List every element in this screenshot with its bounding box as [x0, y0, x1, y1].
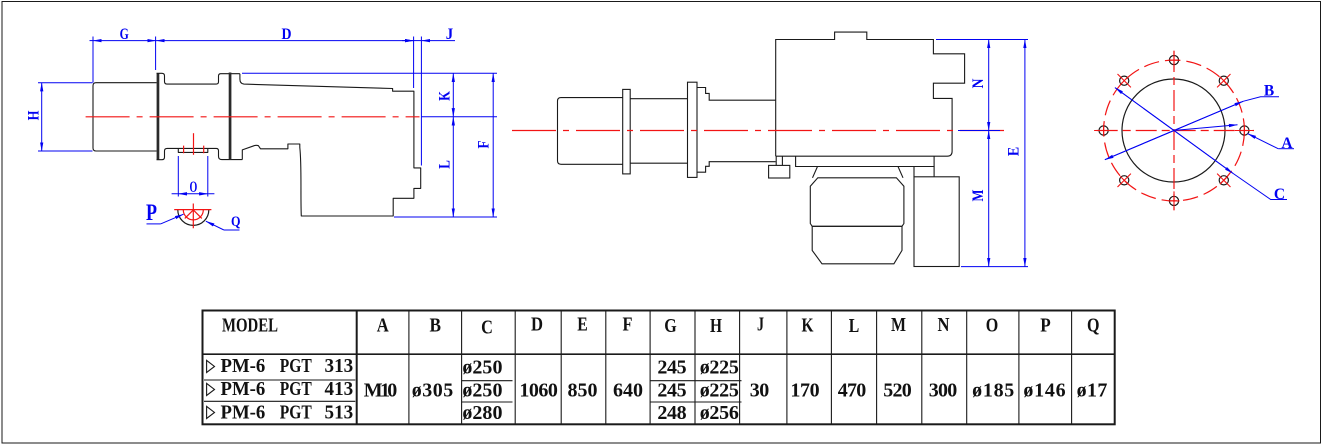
label P with leader — [146, 200, 184, 225]
flange collar bottom — [157, 148, 243, 159]
dimension E — [1006, 40, 1025, 267]
G column rows — [657, 356, 686, 424]
svg-text:640: 640 — [613, 379, 643, 401]
blast tube (left cylinder) — [93, 83, 157, 151]
label B diameter line with leader — [1105, 82, 1279, 159]
svg-text:H: H — [710, 315, 722, 337]
svg-text:ø250: ø250 — [462, 356, 502, 378]
mounting plate — [796, 156, 935, 166]
solenoid stem — [776, 156, 782, 165]
svg-text:C: C — [481, 317, 493, 339]
solenoid box — [769, 165, 790, 178]
fan housing box with top lug and side notch — [776, 32, 965, 156]
svg-text:E: E — [577, 314, 588, 336]
flange 1 — [623, 89, 631, 173]
svg-text:248: 248 — [657, 402, 686, 424]
svg-text:A: A — [1281, 135, 1293, 152]
svg-text:520: 520 — [883, 379, 912, 401]
hole axis centerline (red vertical) — [193, 133, 195, 155]
svg-text:PGT: PGT — [280, 355, 313, 377]
dimension J — [402, 26, 455, 166]
svg-text:J: J — [446, 26, 454, 43]
svg-text:1060: 1060 — [519, 379, 558, 401]
svg-text:D: D — [282, 26, 292, 43]
flange 2 — [688, 82, 698, 177]
data values merged cells — [364, 379, 1108, 401]
svg-text:D: D — [531, 314, 543, 336]
dimension D — [156, 26, 414, 43]
svg-text:ø146: ø146 — [1023, 379, 1065, 401]
label C diameter line with leader — [1115, 88, 1287, 203]
svg-text:PM-6: PM-6 — [221, 355, 266, 377]
svg-text:P: P — [1040, 315, 1051, 337]
svg-text:G: G — [120, 26, 129, 43]
svg-text:N: N — [938, 314, 950, 336]
svg-text:300: 300 — [929, 379, 958, 401]
svg-text:B: B — [1264, 82, 1274, 99]
svg-text:N: N — [970, 79, 987, 89]
svg-text:O: O — [190, 179, 198, 196]
svg-text:30: 30 — [750, 379, 770, 401]
second flange thick face — [229, 73, 232, 160]
motor neck — [813, 167, 904, 178]
svg-text:170: 170 — [790, 379, 819, 401]
transformer box — [914, 177, 959, 267]
svg-text:L: L — [437, 160, 454, 169]
svg-text:P: P — [146, 200, 157, 225]
svg-text:G: G — [664, 315, 677, 337]
svg-text:K: K — [437, 91, 454, 101]
svg-text:M: M — [891, 314, 906, 336]
label Q with leader — [206, 214, 241, 230]
svg-text:B: B — [430, 315, 442, 337]
bolt hole 315deg — [1217, 174, 1230, 187]
table header separator — [203, 353, 1115, 355]
detail red bolt-circle arc — [183, 210, 203, 220]
svg-text:850: 850 — [567, 379, 597, 401]
dimension N — [970, 40, 989, 131]
H column rows — [700, 356, 739, 424]
svg-text:F: F — [475, 140, 492, 148]
model row 2 — [207, 378, 354, 400]
main housing outline — [240, 74, 421, 216]
bolt hole 135deg — [1118, 74, 1131, 87]
svg-text:ø250: ø250 — [462, 379, 502, 401]
crosshair horizontal (red) — [1097, 130, 1254, 132]
table column line MODEL — [356, 311, 358, 425]
svg-text:ø225: ø225 — [700, 356, 739, 378]
C column rows — [462, 356, 502, 424]
bolt hole 225deg — [1118, 174, 1131, 187]
bolt hole 270deg — [1169, 191, 1180, 210]
inner bore circle (black) — [1122, 79, 1225, 182]
row separators C column — [462, 381, 513, 402]
bolt hole 90deg — [1169, 51, 1180, 70]
motor lower body — [812, 226, 902, 263]
svg-text:F: F — [623, 314, 633, 336]
bolt hole 45deg — [1217, 74, 1230, 87]
svg-text:PM-6: PM-6 — [221, 378, 266, 400]
svg-text:M10: M10 — [364, 379, 397, 401]
label A hole callout — [1176, 125, 1294, 152]
svg-text:513: 513 — [325, 401, 354, 423]
svg-text:K: K — [802, 315, 814, 337]
bolt hole 180deg — [1094, 125, 1113, 136]
bolt circle (red dashed) — [1104, 60, 1245, 201]
svg-text:C: C — [1274, 186, 1285, 203]
svg-text:Q: Q — [1087, 315, 1100, 337]
boss notch under body — [178, 148, 208, 152]
table outer border — [203, 311, 1115, 425]
mounting flange disc (thick bar) — [157, 73, 160, 160]
dimension H — [26, 83, 93, 151]
svg-text:A: A — [377, 315, 389, 337]
svg-text:ø305: ø305 — [412, 379, 454, 401]
svg-text:ø17: ø17 — [1077, 379, 1108, 401]
svg-text:413: 413 — [325, 378, 354, 400]
flange collar top — [157, 73, 240, 84]
extension lines K/L/F — [242, 73, 497, 217]
svg-text:J: J — [757, 314, 764, 336]
svg-text:ø185: ø185 — [972, 379, 1014, 401]
svg-text:ø256: ø256 — [700, 402, 739, 424]
model row 1 — [207, 355, 354, 377]
svg-text:470: 470 — [838, 379, 867, 401]
dimension L — [437, 117, 454, 217]
svg-text:H: H — [26, 111, 43, 121]
svg-text:PGT: PGT — [280, 401, 313, 423]
detail red 45deg rays — [185, 210, 202, 219]
svg-text:ø225: ø225 — [700, 379, 739, 401]
row separators MODEL column — [204, 380, 355, 401]
dimension O — [172, 156, 215, 197]
svg-text:M: M — [970, 189, 987, 201]
svg-text:L: L — [849, 315, 860, 337]
motor upper body — [810, 178, 904, 227]
svg-text:245: 245 — [657, 356, 686, 378]
model row 3 — [207, 401, 354, 423]
svg-text:245: 245 — [657, 379, 686, 401]
detail semicircle (black flange OD arc) — [178, 210, 209, 226]
svg-text:313: 313 — [325, 355, 354, 377]
dimension K — [437, 73, 454, 117]
svg-text:PGT: PGT — [280, 378, 313, 400]
dimension F — [475, 73, 493, 217]
svg-text:PM-6: PM-6 — [221, 401, 266, 423]
svg-text:Q: Q — [231, 214, 241, 230]
header letters A-Q — [377, 314, 1100, 339]
hole center ticks (red) — [184, 146, 204, 154]
centerline (red) — [512, 130, 1005, 132]
centerline (red) — [86, 116, 420, 118]
crosshair vertical (red) — [1173, 51, 1175, 210]
dimension M — [970, 131, 989, 267]
transformer neck — [914, 167, 934, 177]
dimension G — [90, 26, 157, 83]
extension lines N/E/M — [936, 40, 1028, 267]
row separators G and H columns — [650, 381, 741, 402]
detail red crosshair — [174, 204, 211, 229]
blast tube — [558, 98, 623, 165]
svg-text:ø280: ø280 — [462, 402, 502, 424]
svg-text:O: O — [986, 315, 999, 337]
collar after flange 2 — [697, 88, 776, 173]
body between flanges — [630, 99, 687, 164]
svg-text:MODEL: MODEL — [222, 315, 278, 337]
svg-text:E: E — [1006, 147, 1023, 156]
bolt hole 0deg — [1235, 125, 1254, 136]
table column lines — [409, 311, 1072, 425]
